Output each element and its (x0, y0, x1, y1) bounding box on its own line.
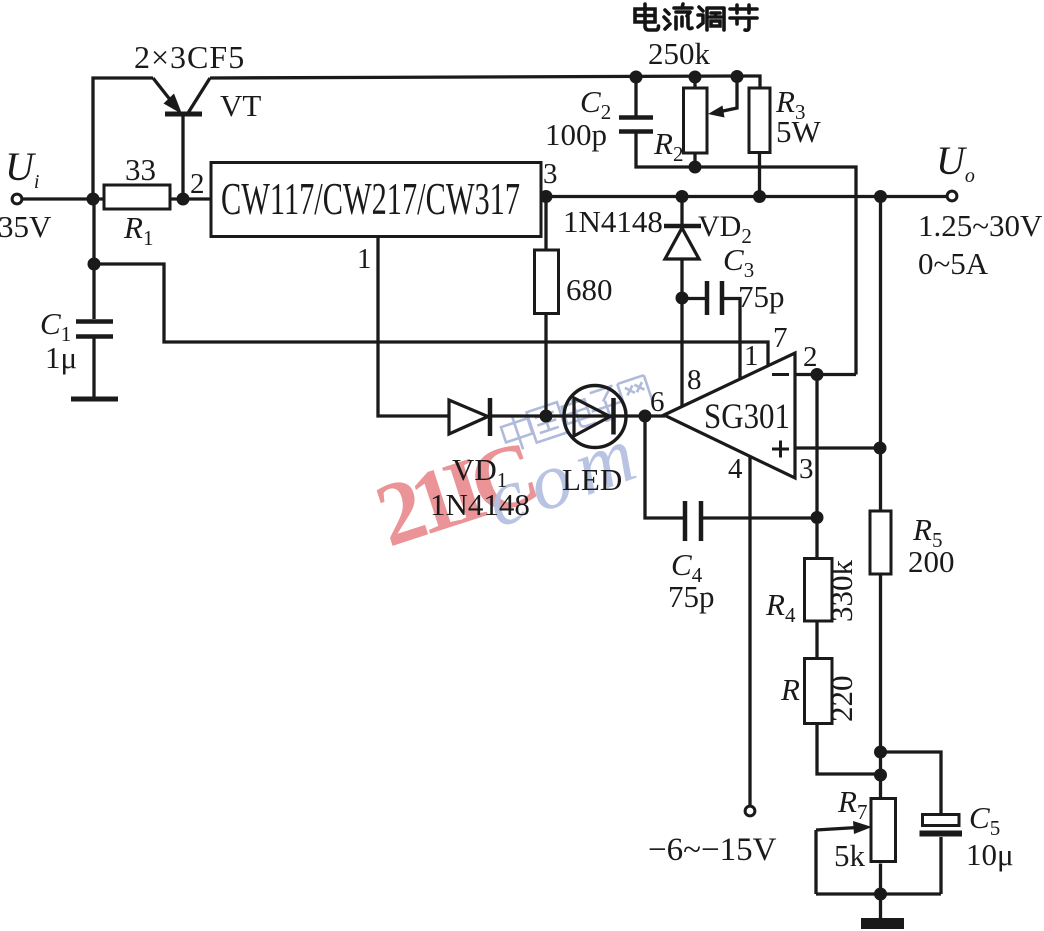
svg-text:75p: 75p (738, 279, 785, 314)
svg-text:1.25~30V: 1.25~30V (918, 208, 1043, 243)
svg-text:CW117/CW217/CW317: CW117/CW217/CW317 (221, 174, 520, 224)
svg-text:200: 200 (908, 544, 955, 579)
svg-text:8: 8 (687, 364, 702, 396)
svg-text:5k: 5k (834, 838, 866, 873)
svg-text:220: 220 (824, 676, 859, 723)
svg-text:10μ: 10μ (966, 837, 1014, 872)
svg-text:680: 680 (566, 272, 613, 307)
svg-text:5W: 5W (776, 114, 822, 149)
svg-text:330k: 330k (824, 560, 859, 623)
svg-text:1: 1 (744, 340, 759, 372)
svg-text:2: 2 (190, 168, 205, 200)
svg-text:250k: 250k (648, 36, 711, 71)
svg-text:2: 2 (803, 341, 818, 373)
svg-text:35V: 35V (0, 209, 52, 244)
svg-text:1N4148: 1N4148 (430, 487, 530, 522)
svg-text:1: 1 (357, 243, 372, 275)
svg-text:7: 7 (773, 322, 788, 354)
svg-text:6: 6 (650, 386, 665, 418)
svg-text:33: 33 (125, 152, 156, 187)
svg-text:2×3CF5: 2×3CF5 (134, 39, 245, 75)
svg-text:1μ: 1μ (45, 340, 77, 375)
svg-text:−6~−15V: −6~−15V (648, 832, 777, 868)
svg-text:R: R (780, 672, 800, 707)
svg-text:1N4148: 1N4148 (563, 204, 663, 239)
svg-text:VT: VT (220, 88, 261, 123)
svg-text:3: 3 (799, 453, 814, 485)
svg-text:LED: LED (562, 462, 622, 497)
svg-text:100p: 100p (545, 117, 607, 152)
svg-text:SG301: SG301 (704, 396, 790, 436)
svg-text:0~5A: 0~5A (918, 246, 989, 281)
svg-text:3: 3 (543, 158, 558, 190)
svg-text:4: 4 (728, 453, 743, 485)
svg-text:75p: 75p (668, 579, 715, 614)
